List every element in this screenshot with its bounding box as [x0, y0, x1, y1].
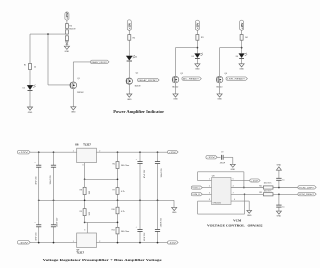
junction — [157, 242, 159, 244]
svg-text:+: + — [34, 222, 36, 224]
junction — [38, 151, 40, 153]
ground (mid rail) — [172, 207, 177, 214]
svg-text:VCM_LEFT: VCM_LEFT — [299, 187, 315, 189]
svg-text:GND: GND — [172, 212, 177, 214]
junction — [243, 187, 245, 189]
svg-text:AC_READY: AC_READY — [183, 78, 200, 81]
svg-text:R9: R9 — [80, 211, 82, 213]
wire cap column 4 top — [157, 152, 159, 200]
wire cap column 3 top — [139, 152, 141, 200]
power flag +15V (chain D) — [240, 20, 244, 30]
trimmer box (chain A middle box) — [65, 30, 68, 34]
svg-text:GND: GND — [71, 112, 76, 114]
wire feedback bottom — [198, 194, 245, 214]
svg-text:D4: D4 — [135, 56, 137, 58]
svg-text:R3: R3 — [201, 37, 204, 39]
wire adj to divider bottom — [85, 221, 118, 223]
resistor box (chain A lower box) — [65, 36, 68, 41]
net label DELAY_FRONT — [137, 78, 159, 82]
wire — [202, 192, 211, 194]
svg-text:6: 6 — [234, 199, 235, 201]
svg-text:2N7002: 2N7002 — [77, 92, 84, 94]
wire divider bottom — [117, 200, 119, 207]
ground (LED D5) — [195, 64, 200, 71]
wire cap column 4 bottom — [157, 200, 159, 242]
wire — [273, 193, 298, 195]
wire — [117, 169, 119, 188]
resistor R12 100 Ohm — [259, 183, 273, 189]
wire drain to net — [73, 62, 90, 82]
svg-text:+15V: +15V — [240, 23, 244, 29]
svg-text:GND: GND — [217, 99, 222, 101]
wire cap column 3 bottom — [139, 200, 141, 242]
wire — [231, 179, 250, 181]
svg-text:U8: U8 — [212, 175, 216, 177]
svg-text:DELAY_FRONT: DELAY_FRONT — [139, 79, 158, 82]
junction — [53, 199, 55, 201]
svg-text:1k: 1k — [34, 66, 37, 68]
svg-text:+: + — [136, 227, 138, 229]
wire — [128, 84, 130, 94]
wire mid to gnd — [173, 200, 175, 207]
svg-text:R6: R6 — [112, 164, 114, 166]
svg-text:-15V: -15V — [18, 242, 29, 244]
svg-text:Voltage Regulator Preamplifier: Voltage Regulator Preamplifier + Bias Am… — [43, 258, 163, 262]
resistor R3 — [196, 35, 204, 41]
junction — [47, 33, 49, 35]
svg-text:Power Amplifier Indicator: Power Amplifier Indicator — [113, 109, 164, 114]
regulator U6 TL317 — [73, 142, 101, 162]
wire — [117, 194, 119, 200]
svg-text:1: 1 — [73, 151, 74, 153]
wire — [128, 61, 130, 78]
wire — [29, 70, 31, 86]
svg-text:1: 1 — [209, 179, 210, 181]
svg-text:R7: R7 — [112, 190, 114, 192]
svg-text:5: 5 — [233, 179, 234, 181]
wire — [241, 30, 243, 34]
net label VCM_L — [191, 186, 202, 190]
svg-text:240: 240 — [89, 211, 91, 215]
caption Voltage Regulator — [43, 258, 163, 262]
LED D2 — [23, 85, 36, 91]
wire — [84, 200, 86, 222]
wire — [117, 214, 119, 228]
wire — [196, 59, 198, 64]
junction — [241, 47, 243, 49]
net label -15V in — [17, 241, 30, 245]
junction — [117, 199, 119, 201]
svg-text:560 Ohm: 560 Ohm — [121, 165, 130, 167]
junction — [84, 199, 86, 201]
ground (Q3) — [173, 94, 178, 101]
svg-text:1: 1 — [73, 241, 74, 243]
wire divider top — [117, 152, 119, 161]
wire adj to divider — [85, 178, 118, 180]
junction — [139, 151, 141, 153]
svg-text:240: 240 — [89, 190, 91, 194]
ground (C11) — [276, 211, 281, 218]
resistor R1 1k — [24, 64, 37, 70]
svg-text:GND: GND — [65, 51, 70, 53]
svg-text:2: 2 — [99, 151, 100, 153]
svg-text:1n: 1n — [282, 180, 284, 182]
svg-text:BD139: BD139 — [69, 28, 76, 30]
junction — [278, 187, 280, 189]
svg-text:2: 2 — [99, 241, 100, 243]
wire pin4 to gnd — [231, 199, 249, 211]
svg-text:GND: GND — [247, 215, 252, 217]
svg-text:47uF 25V: 47uF 25V — [35, 176, 37, 185]
svg-text:VOLTAGE CONTROL OPA1632: VOLTAGE CONTROL OPA1632 — [207, 224, 263, 228]
svg-text:R4: R4 — [245, 37, 248, 39]
op-amp U8 OPA1632 — [212, 175, 232, 204]
svg-text:Q2: Q2 — [136, 72, 139, 74]
junction — [38, 242, 40, 244]
resistor R5 (chain A top box) — [65, 24, 76, 31]
junction — [278, 193, 280, 195]
junction — [84, 178, 86, 180]
wire cap column 1 — [38, 152, 40, 242]
ground (C9) — [230, 164, 235, 171]
power flag +15V (chain B) — [127, 20, 131, 31]
capacitor C9 470nF — [220, 152, 226, 165]
wire adj U7 — [84, 222, 87, 233]
svg-text:R12: R12 — [259, 185, 262, 187]
junction — [244, 193, 246, 195]
wire gate net — [48, 34, 70, 85]
svg-text:470nF: 470nF — [220, 162, 226, 164]
wire lower out — [231, 192, 263, 194]
junction — [197, 47, 199, 49]
ground (Q4) — [217, 94, 222, 101]
svg-text:GND: GND — [239, 69, 244, 71]
svg-text:BD139: BD139 — [135, 86, 141, 88]
ground (LED D6) — [239, 64, 244, 71]
net label +15V in — [17, 150, 30, 154]
capacitor C1 47uF/25V — [34, 162, 41, 184]
capacitor C10 1nF — [276, 178, 284, 181]
LED D4 — [126, 55, 137, 61]
diode D1 (chain A) — [66, 42, 69, 45]
resistor R6 560 Ohm — [112, 162, 129, 169]
resistor R2 — [128, 35, 136, 41]
svg-text:GND: GND — [277, 165, 282, 167]
svg-text:C9: C9 — [221, 152, 223, 154]
wire — [278, 194, 280, 205]
svg-text:LSR_READY: LSR_READY — [227, 78, 246, 81]
junction — [117, 222, 119, 224]
wire adj U6 — [82, 163, 84, 180]
net label -15V (VCM supply) — [206, 156, 217, 160]
wire — [196, 30, 198, 34]
net label LSR_READY — [226, 77, 247, 81]
wire — [117, 234, 119, 243]
resistor R8 240 — [80, 187, 91, 194]
ground (chain A) — [64, 46, 69, 53]
junction — [117, 178, 119, 180]
wire — [241, 59, 243, 64]
svg-text:GND: GND — [277, 216, 282, 218]
junction — [53, 242, 55, 244]
svg-text:GND: GND — [127, 99, 132, 101]
wire — [217, 156, 220, 158]
ground (LED D2) — [27, 107, 32, 114]
svg-text:R1: R1 — [24, 65, 26, 67]
junction — [139, 242, 141, 244]
svg-text:100nF 25V: 100nF 25V — [50, 175, 52, 185]
transistor Q4 BD140 — [216, 73, 227, 89]
svg-text:VCM: VCM — [233, 218, 242, 222]
capacitor C4 100nF — [51, 217, 59, 227]
svg-text:GND: GND — [28, 112, 33, 114]
ground (U8) — [247, 210, 252, 216]
wire cap column 2 — [53, 152, 55, 242]
svg-text:Q4: Q4 — [224, 73, 227, 75]
wire mid rail — [39, 199, 174, 201]
svg-text:VCM_L: VCM_L — [192, 188, 200, 190]
resistor R10 4.7k — [112, 207, 125, 214]
wire — [29, 34, 31, 63]
svg-text:D2: D2 — [23, 87, 25, 89]
wire node to chain A — [30, 33, 65, 35]
ground flipped (C10) — [276, 165, 281, 171]
wire — [219, 83, 221, 94]
power flag +15V (chain C) — [195, 20, 199, 30]
net label +15V (VCM) — [250, 179, 260, 183]
power flag +15V (chain A) — [65, 12, 69, 20]
svg-text:TL317: TL317 — [76, 250, 84, 254]
svg-text:47uF 25V: 47uF 25V — [35, 232, 37, 241]
junction — [157, 199, 159, 201]
svg-text:100nF 25V: 100nF 25V — [161, 168, 163, 178]
svg-text:R8: R8 — [80, 190, 82, 192]
junction — [157, 151, 159, 153]
svg-text:+15V: +15V — [18, 152, 29, 154]
svg-text:OPA1632: OPA1632 — [213, 202, 222, 205]
svg-text:GND: GND — [195, 69, 200, 71]
svg-text:560 Ohm: 560 Ohm — [121, 231, 130, 233]
wire — [84, 179, 86, 200]
svg-text:R10: R10 — [112, 209, 115, 211]
resistor R9 240 — [80, 209, 91, 216]
resistor R7 4.7k — [112, 188, 124, 195]
svg-text:3: 3 — [209, 192, 210, 194]
svg-text:3: 3 — [84, 230, 85, 232]
svg-text:4.7k: 4.7k — [121, 211, 125, 213]
net label VCM_R — [191, 193, 202, 197]
resistor R11 560 Ohm — [112, 227, 130, 234]
svg-text:+15V: +15V — [169, 152, 177, 154]
net label -15V out — [167, 241, 178, 245]
svg-text:R5: R5 — [69, 26, 72, 28]
svg-text:4.7k: 4.7k — [121, 191, 125, 193]
capacitor C6 100nF — [155, 162, 163, 178]
junction — [84, 222, 86, 224]
capacitor C3 47uF/25V — [34, 222, 41, 241]
svg-text:R13: R13 — [259, 192, 262, 194]
svg-text:VCM_RIGHT: VCM_RIGHT — [299, 194, 315, 196]
junction — [139, 199, 141, 201]
svg-text:+: + — [136, 159, 138, 161]
transistor Q1 2N7002 — [70, 78, 84, 94]
wire — [278, 170, 280, 178]
junction — [117, 151, 119, 153]
capacitor C2 100nF — [50, 165, 56, 184]
wire branch D — [220, 48, 242, 77]
svg-text:+15V: +15V — [128, 23, 132, 29]
ground (Q2) — [127, 94, 132, 101]
svg-text:100 Ohm: 100 Ohm — [264, 183, 272, 185]
svg-text:+15V: +15V — [196, 23, 200, 29]
junction — [38, 199, 40, 201]
wire bottom rail — [30, 242, 167, 244]
wire — [128, 40, 130, 56]
capacitor C5 47uF/25V — [136, 159, 146, 178]
wire — [202, 186, 211, 188]
resistor R13 100 Ohm — [259, 190, 273, 196]
svg-text:Q1: Q1 — [77, 78, 80, 80]
capacitor C8 100nF — [155, 217, 163, 231]
wire — [273, 187, 298, 189]
svg-text:Q3: Q3 — [180, 73, 183, 75]
svg-text:+: + — [34, 162, 36, 164]
wire — [196, 40, 198, 53]
svg-text:100nF 25V: 100nF 25V — [161, 217, 163, 227]
wire — [72, 89, 74, 107]
wire — [278, 180, 280, 187]
svg-text:GND: GND — [173, 99, 178, 101]
wire — [223, 157, 233, 164]
capacitor C7 47uF/25V — [136, 227, 146, 241]
junction — [53, 151, 55, 153]
svg-text:R2: R2 — [133, 37, 136, 39]
svg-text:D5: D5 — [192, 56, 194, 58]
caption VCM — [233, 218, 242, 222]
svg-text:GND: GND — [231, 169, 236, 171]
svg-text:100nF 25V: 100nF 25V — [57, 217, 59, 227]
svg-text:47uF 25V: 47uF 25V — [144, 232, 146, 241]
svg-text:READY_FRONT: READY_FRONT — [92, 61, 108, 64]
wire — [241, 40, 243, 53]
net label VCM_LEFT — [298, 186, 316, 190]
LED D6 — [236, 53, 247, 59]
wire upper out — [231, 186, 263, 188]
resistor R4 — [240, 35, 248, 41]
svg-text:R11: R11 — [112, 229, 115, 231]
regulator U7 TL317 — [73, 233, 101, 254]
svg-text:100 Ohm: 100 Ohm — [264, 190, 272, 192]
wire — [29, 90, 31, 107]
net label AC_READY — [182, 77, 201, 81]
transistor Q3 BD140 — [172, 73, 183, 89]
LED D5 — [192, 53, 203, 59]
svg-text:8: 8 — [209, 199, 210, 201]
svg-text:VCM_R: VCM_R — [192, 194, 200, 196]
wire — [128, 30, 130, 34]
caption Power Amplifier Indicator — [113, 109, 164, 114]
svg-text:3: 3 — [82, 165, 83, 167]
caption VOLTAGE CONTROL OPA1632 — [207, 224, 263, 228]
wire top rail — [30, 151, 167, 153]
wire — [175, 83, 177, 94]
net label +15V out — [167, 150, 178, 154]
net label VCM_RIGHT — [298, 192, 316, 196]
svg-text:+15V: +15V — [65, 12, 69, 18]
wire feedback top — [198, 172, 244, 188]
svg-text:TL317: TL317 — [83, 142, 91, 146]
svg-text:2: 2 — [209, 186, 210, 188]
svg-text:4: 4 — [233, 186, 234, 188]
wire — [66, 44, 68, 46]
svg-text:7: 7 — [233, 192, 234, 194]
wire — [66, 20, 68, 23]
capacitor C11 1nF — [276, 205, 284, 208]
svg-text:47uF 25V: 47uF 25V — [144, 169, 146, 178]
transistor Q2 BD139 — [126, 72, 140, 87]
wire branch C — [176, 48, 198, 77]
svg-text:U6: U6 — [75, 142, 79, 146]
net label READY_FRONT — [90, 60, 109, 64]
svg-text:D6: D6 — [236, 56, 238, 58]
svg-text:1n: 1n — [282, 206, 284, 208]
junction — [117, 242, 119, 244]
wire — [278, 207, 280, 211]
ground (Q1) — [71, 107, 76, 114]
